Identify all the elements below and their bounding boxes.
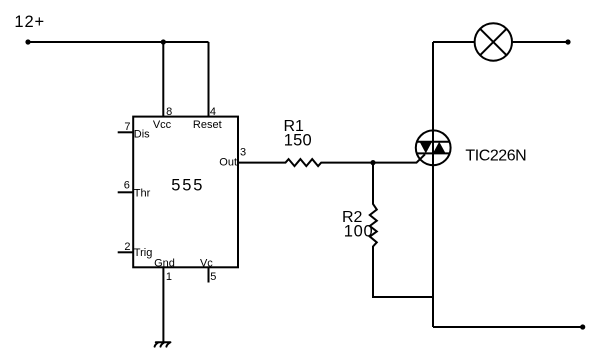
wire pin 4 drop	[208, 42, 210, 117]
wire pin 8 drop	[162, 42, 164, 117]
resistor R1	[238, 154, 425, 166]
svg-text:Reset: Reset	[193, 119, 222, 131]
svg-text:Dis: Dis	[134, 129, 150, 141]
wire pin 2 stub	[118, 251, 134, 253]
svg-text:Thr: Thr	[134, 188, 151, 200]
svg-text:Trig: Trig	[134, 247, 153, 259]
wire bottom right to terminal	[433, 326, 583, 328]
svg-text:Gnd: Gnd	[154, 257, 175, 269]
svg-text:150: 150	[284, 131, 312, 149]
svg-text:TIC226N: TIC226N	[465, 147, 526, 164]
wire pin 1 ground drop	[162, 267, 164, 342]
resistor R2	[370, 163, 433, 297]
IC U1 555 body	[133, 117, 238, 268]
node dot 12+ terminal	[25, 39, 30, 44]
node dot bottom right terminal	[580, 324, 585, 329]
node dot lamp right terminal	[565, 39, 570, 44]
triac left triangle (down)	[420, 142, 432, 154]
svg-text:4: 4	[210, 106, 216, 118]
svg-text:1: 1	[166, 271, 172, 283]
svg-text:7: 7	[124, 121, 130, 133]
triac Q1 TIC226N	[416, 130, 451, 165]
triac right triangle (up)	[433, 142, 446, 154]
svg-text:5: 5	[210, 271, 216, 283]
svg-text:Vc: Vc	[200, 257, 213, 269]
junction dot top rail / pin8	[161, 39, 166, 44]
wire pin 7 stub	[118, 131, 134, 133]
svg-text:3: 3	[240, 147, 246, 159]
wire main right vertical (lamp to MT1)	[432, 42, 434, 327]
svg-text:8: 8	[166, 106, 172, 118]
lamp LP1	[475, 23, 512, 60]
wire lamp right to terminal	[512, 41, 568, 43]
svg-text:100: 100	[344, 222, 374, 240]
svg-text:Out: Out	[219, 157, 237, 169]
wire pin 6 stub	[118, 191, 134, 193]
wire top rail from 12+ node to pin4 corner	[28, 41, 209, 43]
svg-text:2: 2	[124, 241, 130, 253]
svg-text:555: 555	[171, 177, 204, 195]
ground	[155, 342, 171, 346]
svg-text:6: 6	[124, 179, 130, 191]
wire lamp left	[433, 41, 475, 43]
svg-text:12+: 12+	[14, 13, 45, 31]
wire pin 5 stub	[208, 267, 210, 282]
junction dot R1/R2/gate	[370, 160, 375, 165]
svg-text:Vcc: Vcc	[153, 119, 172, 131]
